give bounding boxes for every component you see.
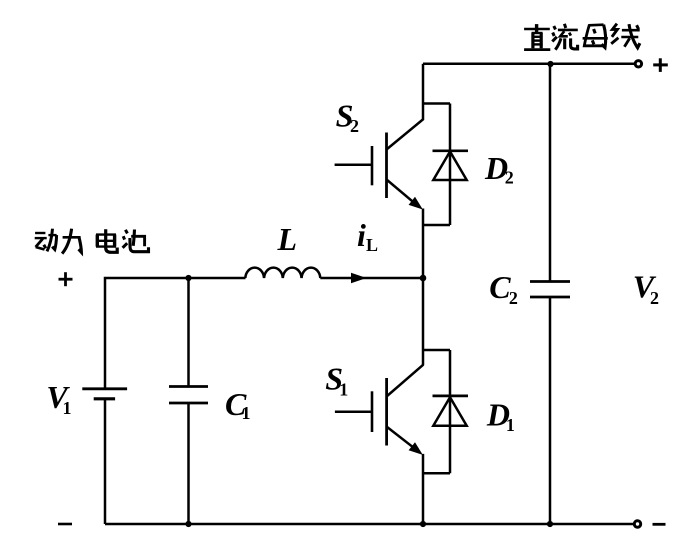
wire D2 top jog bbox=[423, 102, 450, 105]
wire S1 top bbox=[422, 278, 425, 365]
capacitor C2 bbox=[530, 280, 570, 283]
transistor S2 (IGBT) collector diagonal bbox=[387, 119, 424, 150]
wire C2 top lead bbox=[549, 64, 552, 282]
label 直流母线 (glyph 流) bbox=[552, 24, 578, 50]
wire D2 bottom jog bbox=[423, 224, 450, 227]
svg-text:L: L bbox=[277, 221, 298, 257]
node bottom leg bbox=[420, 521, 426, 527]
wire S2 emitter to mid node bbox=[422, 209, 425, 279]
label - (bottom left) bbox=[58, 523, 72, 526]
wire C1 bottom lead bbox=[187, 403, 190, 524]
svg-text:1: 1 bbox=[339, 380, 348, 400]
label 动力电池 (glyph 力) bbox=[62, 229, 81, 254]
svg-text:1: 1 bbox=[242, 403, 251, 423]
svg-text:i: i bbox=[357, 217, 366, 253]
wire S1 emitter to bottom bbox=[422, 454, 425, 524]
label 动力电池 (glyph 电) bbox=[96, 229, 117, 252]
node bottom C1 bbox=[185, 521, 191, 527]
wire battery V1 negative lead bbox=[104, 399, 107, 524]
diode D1 bbox=[433, 395, 469, 398]
node top bus / C2 junction bbox=[547, 61, 553, 67]
svg-text:2: 2 bbox=[505, 168, 514, 188]
svg-text:2: 2 bbox=[650, 288, 659, 308]
node mid junction bbox=[420, 275, 427, 282]
node bottom C2 bbox=[547, 521, 553, 527]
svg-text:1: 1 bbox=[506, 415, 515, 435]
wire C1 top lead bbox=[187, 278, 190, 387]
terminal DC bus negative bbox=[634, 521, 640, 527]
transistor S1 body bar bbox=[385, 378, 388, 446]
transistor S1 emitter diagonal with arrow bbox=[387, 427, 413, 448]
label 动力电池 (glyph 动) bbox=[35, 229, 57, 252]
battery V1 short plate bbox=[94, 397, 115, 400]
transistor S1 gate bar bbox=[371, 391, 374, 432]
svg-text:2: 2 bbox=[509, 288, 518, 308]
transistor S2 emitter diagonal with arrow bbox=[387, 180, 414, 202]
label + (left) bbox=[59, 272, 73, 286]
svg-text:2: 2 bbox=[350, 116, 359, 136]
capacitor C1 bbox=[169, 385, 208, 388]
diode D2 bbox=[433, 149, 469, 152]
transistor S2 body bar bbox=[385, 133, 388, 199]
svg-text:L: L bbox=[366, 235, 378, 255]
label 直流母线 (glyph 直) bbox=[524, 24, 550, 49]
wire S2 gate lead bbox=[335, 164, 372, 167]
wire S2 collector bbox=[422, 64, 425, 120]
label 动力电池 (glyph 池) bbox=[123, 230, 149, 252]
svg-text:C: C bbox=[489, 269, 511, 305]
wire D1 branch vertical bbox=[449, 350, 452, 473]
node C1 top junction bbox=[185, 275, 191, 281]
wire D1 bottom jog bbox=[423, 472, 450, 475]
wire top bus bbox=[423, 63, 634, 66]
svg-text:1: 1 bbox=[63, 398, 72, 418]
arrow i_L current direction bbox=[351, 273, 367, 284]
transistor S1 collector diagonal bbox=[387, 365, 424, 397]
label + (top right) bbox=[653, 58, 668, 72]
wire inductor to mid node bbox=[320, 277, 423, 280]
label 直流母线 (glyph 线) bbox=[611, 24, 640, 48]
wire S1 gate lead bbox=[335, 411, 372, 414]
terminal DC bus positive bbox=[635, 61, 641, 67]
wire D1 top jog bbox=[423, 349, 450, 352]
label 直流母线 (glyph 母) bbox=[583, 25, 608, 48]
inductor L bbox=[245, 268, 320, 278]
wire bottom bus bbox=[105, 523, 633, 526]
label - (bottom right) bbox=[653, 523, 666, 526]
wire battery V1 positive lead and top rail bbox=[105, 278, 246, 388]
wire C2 bottom lead bbox=[549, 297, 552, 524]
transistor S2 gate bar bbox=[371, 146, 374, 185]
battery V1 long plate bbox=[82, 387, 127, 390]
wire D2 branch vertical bbox=[449, 104, 452, 226]
